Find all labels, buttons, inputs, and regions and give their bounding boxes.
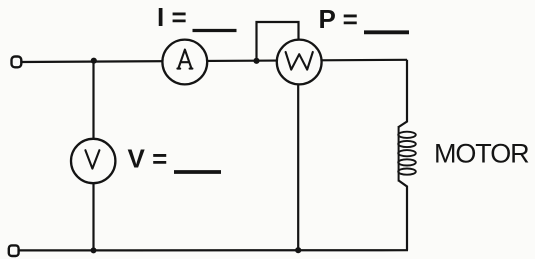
node junction bottom-left [91, 247, 97, 253]
blank line for V [174, 170, 221, 174]
node junction wattmeter loop [253, 58, 259, 64]
svg-text:P =: P = [319, 4, 358, 34]
wire wattmeter current branch vertical [297, 61, 299, 250]
svg-text:V =: V = [128, 144, 168, 174]
wire top horizontal [21, 60, 407, 62]
wire left vertical (voltmeter branch) [92, 62, 94, 250]
inductor motor coil [398, 126, 416, 182]
ammeter A [162, 40, 207, 85]
wire right vertical upper (to motor) [399, 60, 407, 127]
voltmeter V [71, 139, 115, 183]
blank line for I [193, 29, 237, 32]
wattmeter W [277, 40, 322, 85]
terminal bottom-left [9, 245, 19, 256]
terminal top-left [12, 57, 22, 68]
wire bottom horizontal [17, 249, 408, 251]
svg-text:MOTOR: MOTOR [434, 139, 529, 169]
node junction bottom-wattmeter [295, 247, 301, 253]
wire wattmeter voltage loop [257, 22, 299, 61]
blank line for P [364, 30, 409, 34]
node junction top-left [91, 58, 97, 64]
svg-text:I =: I = [157, 2, 187, 32]
wire right vertical lower (from motor) [399, 181, 407, 251]
